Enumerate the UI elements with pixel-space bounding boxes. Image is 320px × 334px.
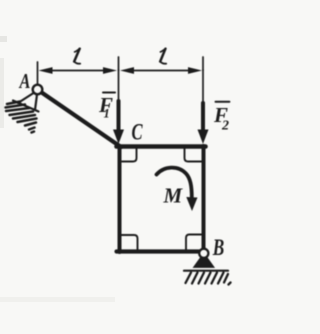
svg-text:A: A	[19, 70, 31, 93]
svg-text:1: 1	[104, 107, 110, 121]
svg-text:B: B	[212, 236, 224, 261]
svg-text:2: 2	[221, 119, 229, 134]
svg-text:M: M	[163, 184, 184, 208]
svg-text:C: C	[132, 120, 144, 145]
